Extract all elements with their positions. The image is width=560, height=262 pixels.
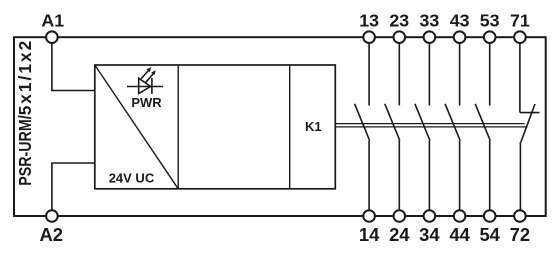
svg-text:44: 44 xyxy=(449,224,470,245)
svg-text:34: 34 xyxy=(419,224,440,245)
svg-text:A2: A2 xyxy=(39,224,63,245)
contact 33-34 xyxy=(415,43,430,210)
svg-text:14: 14 xyxy=(359,224,380,245)
svg-text:71: 71 xyxy=(510,11,530,31)
wire A2 to power block xyxy=(52,163,95,210)
svg-text:43: 43 xyxy=(450,11,470,31)
terminal 13 xyxy=(363,31,375,43)
power section divider xyxy=(177,65,179,189)
svg-text:24V UC: 24V UC xyxy=(109,171,155,186)
LED PWR symbol xyxy=(127,70,163,94)
terminal 23 xyxy=(394,31,406,43)
power supply diagonal xyxy=(95,65,178,189)
K1 section divider xyxy=(289,65,291,189)
terminal 54 xyxy=(484,210,496,222)
svg-text:54: 54 xyxy=(479,224,500,245)
svg-text:K1: K1 xyxy=(305,119,322,134)
terminal 14 xyxy=(363,210,375,222)
svg-text:33: 33 xyxy=(420,11,440,31)
svg-text:72: 72 xyxy=(510,224,530,245)
terminal 53 xyxy=(484,31,496,43)
terminal 33 xyxy=(424,31,436,43)
contact 23-24 xyxy=(385,43,400,210)
terminal A1 xyxy=(46,31,58,43)
terminal 44 xyxy=(454,210,466,222)
svg-text:PSR-URM/: PSR-URM/ xyxy=(15,115,35,186)
contact 53-54 xyxy=(475,43,490,210)
terminal 24 xyxy=(394,210,406,222)
terminal 43 xyxy=(454,31,466,43)
svg-text:PWR: PWR xyxy=(131,95,162,110)
svg-text:53: 53 xyxy=(480,11,500,31)
mechanical link double line xyxy=(335,123,524,125)
contact 43-44 xyxy=(445,43,460,210)
svg-text:13: 13 xyxy=(359,11,379,31)
module outline border xyxy=(14,37,546,216)
svg-text:23: 23 xyxy=(389,11,409,31)
relay body box xyxy=(95,65,335,189)
contact 71-72 NC xyxy=(520,43,540,210)
terminal 34 xyxy=(424,210,436,222)
wire A1 to power block xyxy=(52,43,95,90)
terminal A2 xyxy=(46,210,58,222)
svg-text:24: 24 xyxy=(389,224,410,245)
contact 13-14 xyxy=(355,43,370,210)
terminal 71 xyxy=(514,31,526,43)
terminal 72 xyxy=(514,210,526,222)
svg-text:A1: A1 xyxy=(41,11,64,31)
